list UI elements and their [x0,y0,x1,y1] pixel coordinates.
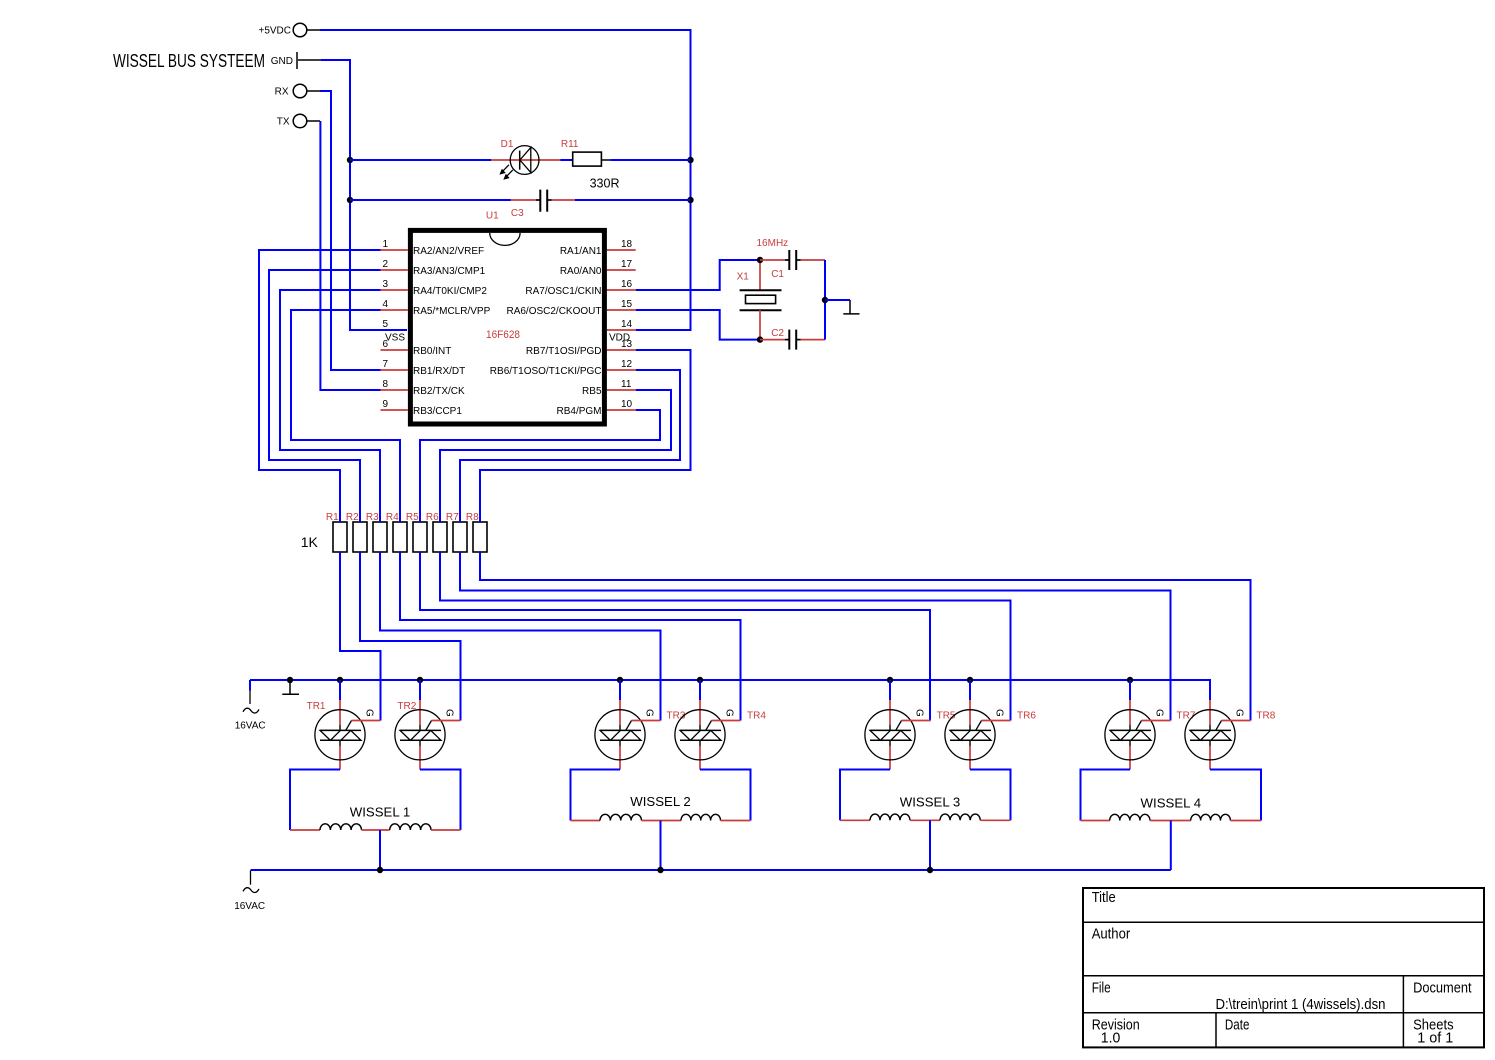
wire R6 to TR6 gate [440,552,1011,721]
pin 8 RB2/TX/CK [381,379,466,397]
wire bus to TR2 top [419,680,421,700]
pin 17 RA0/AN0 [560,259,636,277]
junction +5VDC / D1 row [687,157,693,163]
wire WISSEL 3 center tap [929,820,931,870]
svg-text:14: 14 [621,319,633,330]
wire bus to TR5 top [889,680,891,700]
junction caps mid node [822,297,828,303]
junction bus/ground [287,677,293,683]
pin 15 RA6/OSC2/CKOOUT [506,299,635,317]
connector TX [277,114,320,128]
svg-text:WISSEL 4: WISSEL 4 [1141,796,1202,811]
svg-text:1 of 1: 1 of 1 [1417,1029,1453,1046]
resistor R3 1K [366,512,387,552]
svg-text:RA5/*MCLR/VPP: RA5/*MCLR/VPP [413,306,491,317]
junction bottom bus / WISSEL 2 tap [657,867,663,873]
svg-text:TR6: TR6 [1017,711,1036,722]
pin 2 RA3/AN3/CMP1 [381,259,486,277]
resistor R5 1K [406,512,427,552]
svg-text:TR4: TR4 [747,711,766,722]
svg-text:16MHz: 16MHz [757,238,789,249]
svg-text:18: 18 [621,239,633,250]
svg-text:RA0/AN0: RA0/AN0 [560,266,602,277]
wire RB7 pin13 to R8 [480,350,691,522]
wire +5VDC net to VDD pin 14 [320,30,691,330]
pin 16 RA7/OSC1/CKIN [525,279,635,297]
svg-text:G: G [914,709,925,717]
junction crystal top node [757,257,763,263]
title block [1083,888,1484,1047]
resistor R2 1K [346,512,367,552]
triac TR6 [945,700,1036,770]
svg-text:WISSEL 3: WISSEL 3 [900,794,961,809]
svg-text:Date: Date [1225,1016,1250,1033]
wire pin16 OSC1 to crystal top [636,260,760,290]
svg-text:2: 2 [382,259,388,270]
wire R8 to TR8 gate [480,552,1251,721]
svg-text:5: 5 [382,319,388,330]
junction bus/TR6 [967,677,973,683]
svg-text:RB6/T1OSO/T1CKI/PGC: RB6/T1OSO/T1CKI/PGC [490,366,602,377]
svg-text:17: 17 [621,259,633,270]
triac TR3 [595,700,686,770]
ground on top bus [282,680,299,694]
wire 16VAC top bus [250,680,1210,700]
wire 16VAC bottom bus [251,869,1171,871]
wire C3 row left [350,199,511,201]
svg-text:G: G [994,709,1005,717]
wire D1 row left (GND side) [350,159,491,161]
svg-text:RA2/AN2/VREF: RA2/AN2/VREF [413,246,484,257]
svg-text:Author: Author [1092,925,1131,942]
wire WISSEL 2 center tap [660,821,662,871]
resistor R7 1K [446,512,467,552]
svg-text:16VAC: 16VAC [234,901,265,912]
junction bus/TR7 [1127,677,1133,683]
junction bus/TR2 [417,677,423,683]
switch coil WISSEL 4 [1081,770,1262,821]
svg-text:3: 3 [382,279,388,290]
pin 9 RB3/CCP1 [381,399,463,417]
connector +5VDC [258,23,320,37]
junction GND / C3 row [347,197,353,203]
svg-text:12: 12 [621,359,633,370]
svg-text:G: G [644,709,655,717]
wire RX to pin RB1 [320,91,381,370]
wire bus to TR3 top [619,680,621,700]
svg-text:RB4/PGM: RB4/PGM [556,406,601,417]
wire crystal caps right side [824,260,826,340]
wire GND net to VSS pin 5 [321,60,407,330]
svg-text:RA7/OSC1/CKIN: RA7/OSC1/CKIN [525,286,601,297]
svg-text:RA6/OSC2/CKOOUT: RA6/OSC2/CKOOUT [506,306,601,317]
svg-text:RB3/CCP1: RB3/CCP1 [413,406,462,417]
junction bottom bus / WISSEL 3 tap [927,867,933,873]
resistor R8 1K [466,512,487,552]
svg-text:GND: GND [271,56,293,67]
triac TR1 [307,700,381,770]
svg-text:X1: X1 [737,271,750,282]
wire pin15 OSC2 to crystal bottom [636,310,760,340]
wire R2 to TR2 gate [360,552,461,721]
pin 14 VDD [607,319,636,330]
capacitor C2 [760,328,825,350]
resistor R6 1K [426,512,447,552]
pin 6 RB0/INT [381,339,452,357]
svg-text:6: 6 [382,339,388,350]
triac TR8 [1185,700,1276,770]
svg-text:U1: U1 [486,210,499,221]
ground near crystal [825,300,860,314]
svg-text:WISSEL BUS SYSTEEM: WISSEL BUS SYSTEEM [113,51,265,71]
pin 18 RA1/AN1 [560,239,636,257]
wire C3 row right [575,199,691,201]
svg-text:RA1/AN1: RA1/AN1 [560,246,602,257]
svg-text:RX: RX [275,87,289,98]
resistor R11 330R [560,139,619,190]
crystal X1 16MHz [737,238,789,339]
svg-text:Document: Document [1413,979,1472,996]
svg-text:1K: 1K [301,534,319,550]
wire bus to TR4 top [699,680,701,700]
wire R4 to TR4 gate [400,552,741,721]
wire R1 to TR1 gate [340,552,381,721]
svg-text:G: G [364,709,375,717]
svg-text:G: G [444,709,455,717]
wire RB4 pin10 to R5 [420,410,660,522]
svg-text:RB2/TX/CK: RB2/TX/CK [413,386,465,397]
svg-text:10: 10 [621,399,633,410]
junction +5VDC / C3 row [687,197,693,203]
svg-text:WISSEL 2: WISSEL 2 [630,794,691,809]
capacitor C1 [760,250,825,280]
pin 4 RA5/*MCLR/VPP [381,299,491,317]
triac TR5 [865,700,956,770]
svg-text:G: G [1234,709,1245,717]
svg-text:TR8: TR8 [1256,711,1275,722]
svg-text:16: 16 [621,279,633,290]
capacitor C3 [486,190,575,222]
switch coil WISSEL 1 [290,770,461,831]
svg-text:File: File [1092,979,1111,996]
connector GND [271,52,321,69]
pin 13 RB7/T1OSI/PGD [526,339,636,357]
svg-text:8: 8 [382,379,388,390]
svg-text:RB0/INT: RB0/INT [413,346,451,357]
svg-text:16F628: 16F628 [486,329,520,341]
wire R7 to TR7 gate [460,552,1171,721]
wire WISSEL 1 center tap [379,830,381,870]
wire RA3 pin2 to R2 [269,270,381,522]
svg-text:D:\trein\print 1 (4wissels).ds: D:\trein\print 1 (4wissels).dsn [1216,996,1386,1013]
svg-text:TR1: TR1 [307,701,326,712]
wire RA4 pin3 to R3 [280,290,381,522]
triac TR7 [1105,700,1196,770]
pin 12 RB6/T1OSO/T1CKI/PGC [490,359,636,377]
wire R3 to TR3 gate [380,552,661,721]
svg-text:11: 11 [621,379,632,390]
wire D1 row right (+5V side) [610,159,690,161]
svg-text:C3: C3 [511,208,524,219]
connector RX [275,84,320,98]
svg-text:G: G [1154,709,1165,717]
wire R5 to TR5 gate [420,552,930,721]
triac TR2 [395,700,461,770]
svg-text:WISSEL 1: WISSEL 1 [350,805,411,820]
wire RA5 pin4 to R4 [291,310,400,522]
svg-text:15: 15 [621,299,633,310]
wire TX to pin RB2 [320,121,380,390]
svg-text:9: 9 [382,399,388,410]
svg-text:1.0: 1.0 [1101,1029,1121,1046]
svg-text:RB7/T1OSI/PGD: RB7/T1OSI/PGD [526,346,602,357]
resistor R4 1K [386,512,407,552]
svg-text:C1: C1 [771,269,784,280]
source 16VAC bottom [234,871,265,913]
svg-text:RB5: RB5 [582,386,602,397]
junction bottom bus / WISSEL 1 tap [377,867,383,873]
junction bus/TR3 [617,677,623,683]
svg-text:16VAC: 16VAC [235,721,266,732]
svg-text:330R: 330R [590,176,620,190]
svg-text:TX: TX [277,117,290,128]
wire RB6 pin12 to R7 [460,370,680,522]
svg-text:C2: C2 [771,328,784,339]
junction GND / D1 row [347,157,353,163]
svg-text:4: 4 [382,299,388,310]
svg-text:RA4/T0KI/CMP2: RA4/T0KI/CMP2 [413,286,487,297]
svg-text:VSS: VSS [385,333,405,344]
junction bus/TR5 [887,677,893,683]
svg-text:+5VDC: +5VDC [258,26,291,37]
pin 3 RA4/T0KI/CMP2 [381,279,488,297]
pin 10 RB4/PGM [556,399,635,417]
svg-text:1: 1 [382,239,388,250]
svg-text:RB1/RX/DT: RB1/RX/DT [413,366,465,377]
wire bus to TR7 top [1129,680,1131,700]
wire WISSEL 4 center tap [1170,821,1172,871]
triac TR4 [675,700,766,770]
junction crystal bottom node [757,336,763,342]
svg-text:7: 7 [382,359,388,370]
junction bus/TR4 [697,677,703,683]
svg-text:G: G [724,709,735,717]
svg-text:13: 13 [621,339,633,350]
svg-text:R11: R11 [561,139,579,150]
wire bus to TR1 top [339,680,341,700]
IC U1 16F628 body [385,230,630,424]
wire RB5 pin11 to R6 [440,390,671,522]
pin 7 RB1/RX/DT [381,359,466,377]
wire RA2 pin1 to R1 [259,250,381,522]
svg-text:RA3/AN3/CMP1: RA3/AN3/CMP1 [413,266,486,277]
switch coil WISSEL 3 [840,770,1011,821]
source 16VAC top [235,680,266,732]
resistor R1 1K [326,512,347,552]
switch coil WISSEL 2 [571,770,751,821]
wire bus to TR6 top [969,680,971,700]
pin 1 RA2/AN2/VREF [381,239,485,257]
LED D1 [491,139,560,180]
pin 11 RB5 [582,379,636,397]
junction bus/TR1 [337,677,343,683]
svg-text:Title: Title [1092,889,1116,906]
svg-text:D1: D1 [501,139,514,150]
